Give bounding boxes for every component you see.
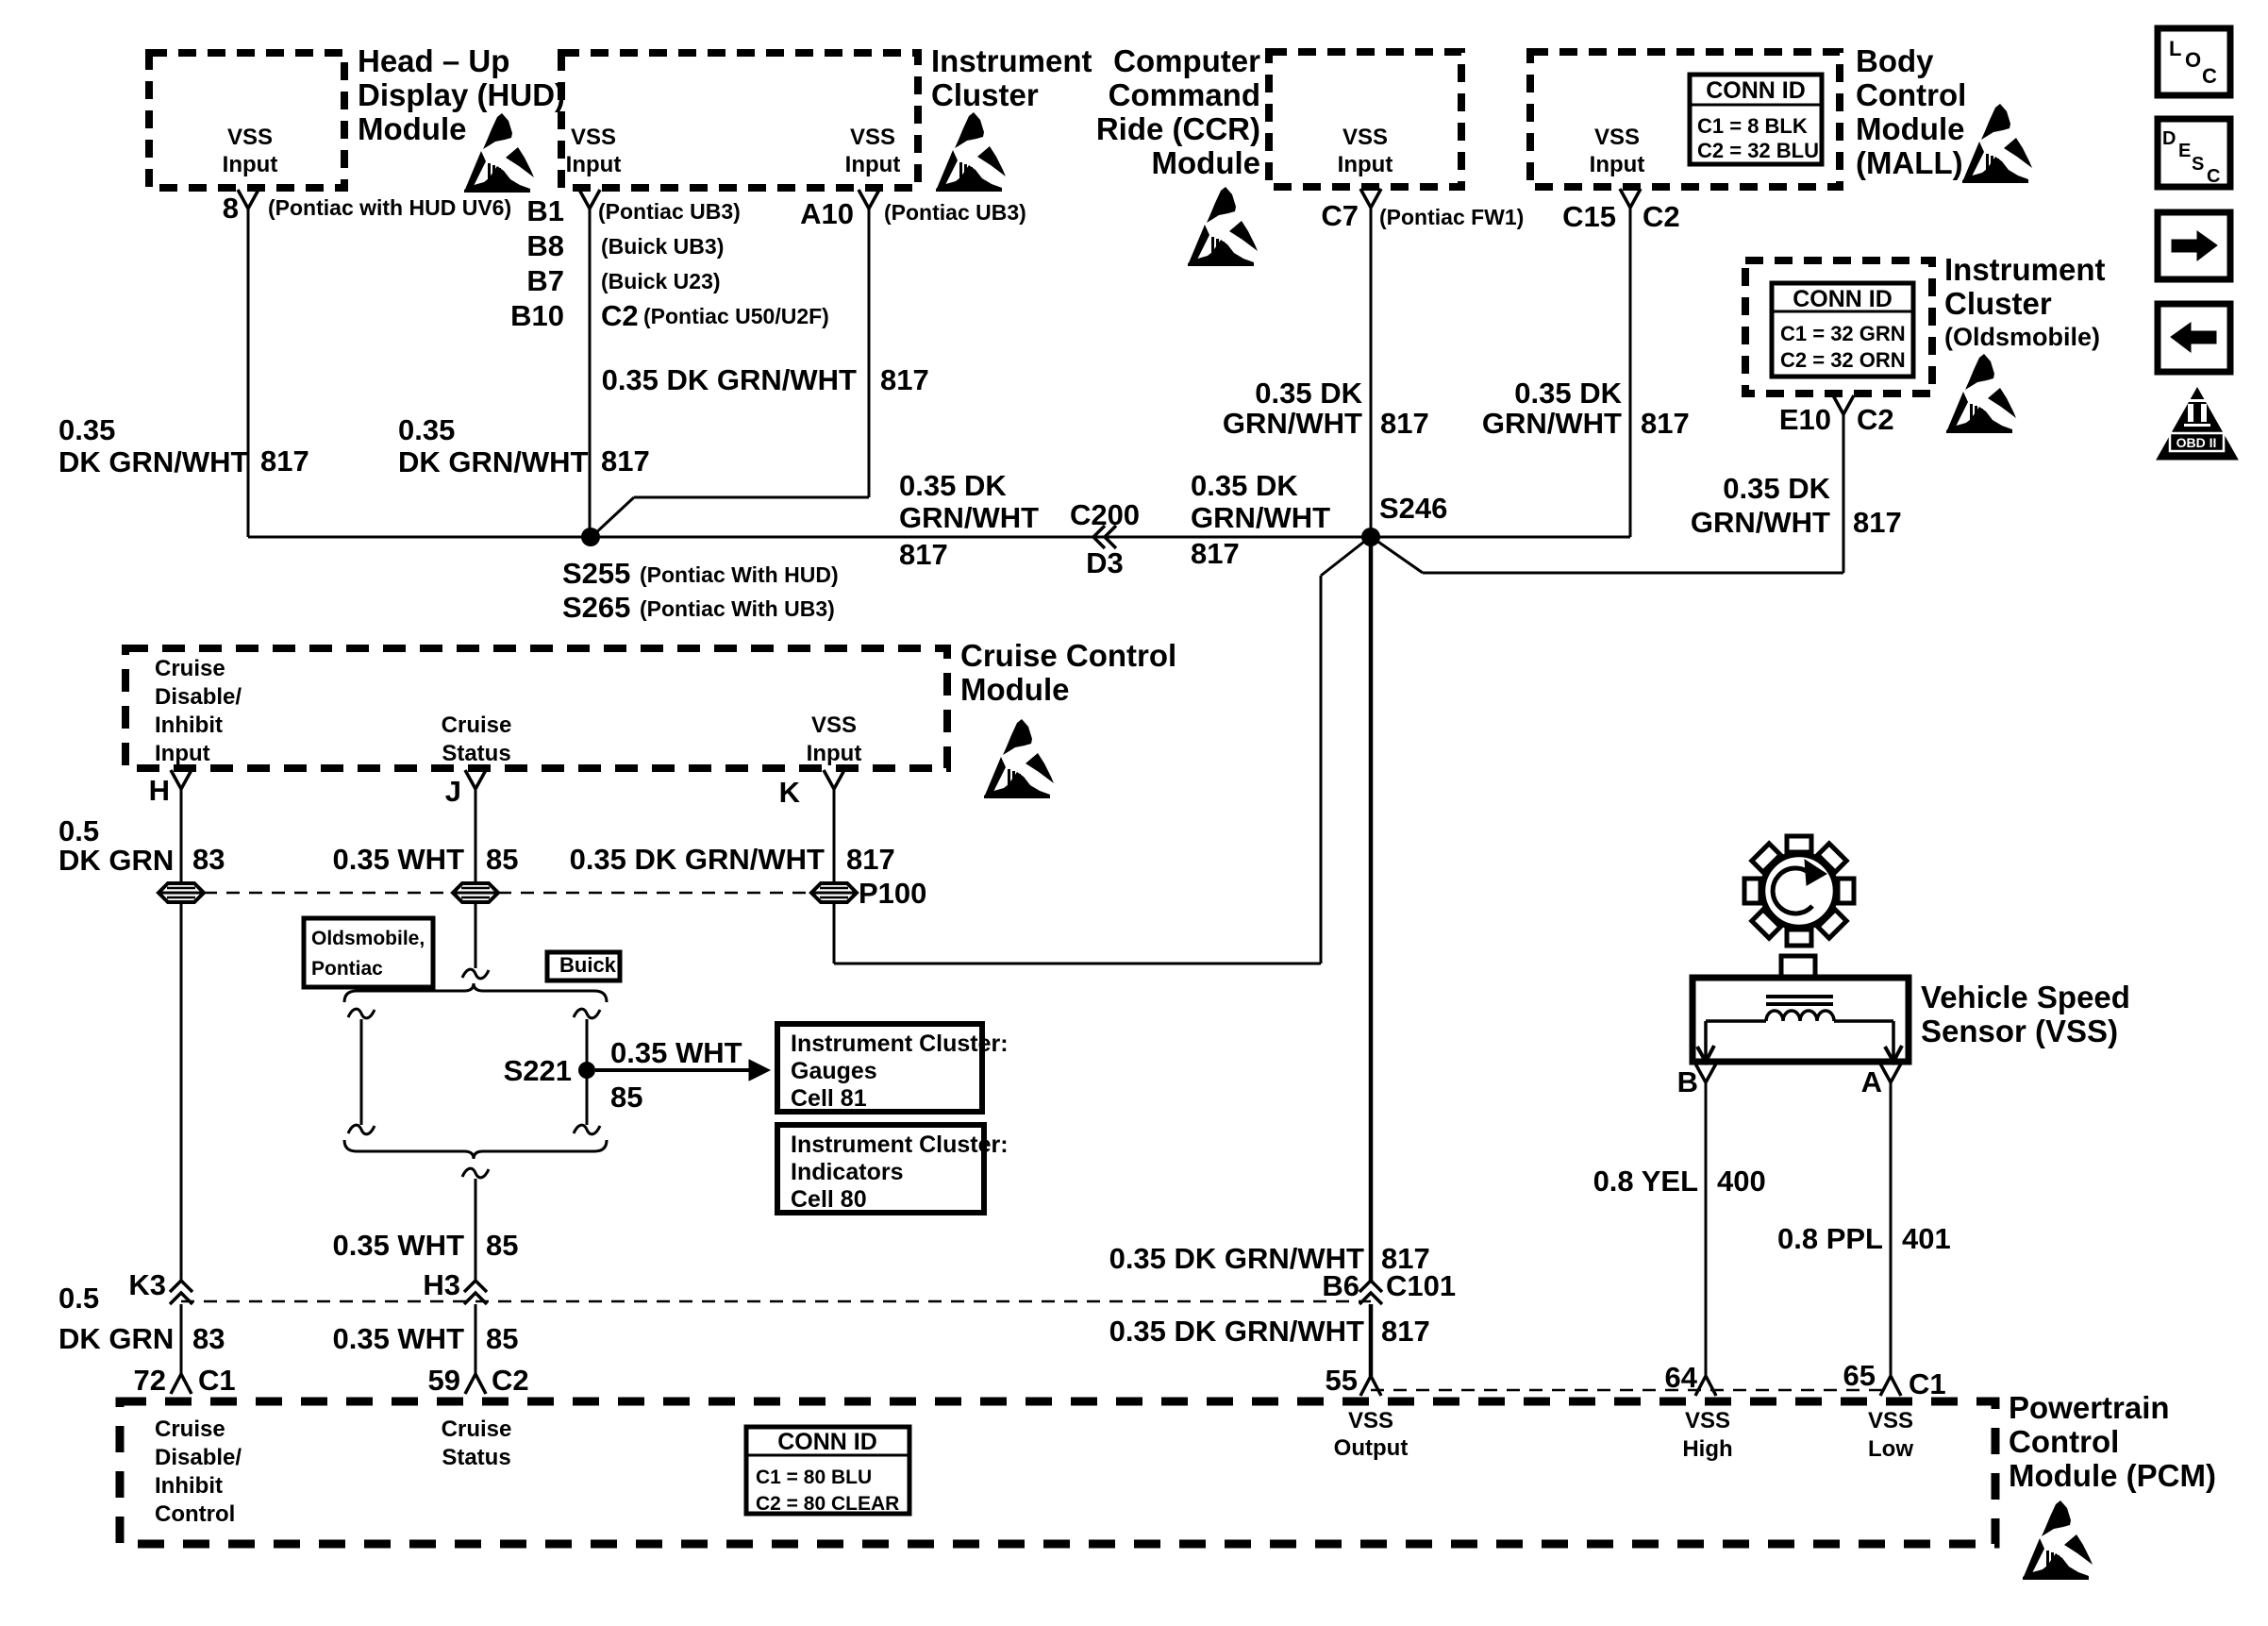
svg-text:C7: C7 (1321, 199, 1359, 232)
inline connector on wire H (158, 883, 204, 902)
splice S246 (1361, 528, 1380, 546)
svg-text:P100: P100 (859, 877, 926, 910)
pin C15 C2 of BCM (1620, 189, 1641, 208)
svg-text:85: 85 (610, 1081, 642, 1114)
ESD icon cruise control (984, 719, 1054, 798)
svg-text:65: 65 (1843, 1359, 1876, 1392)
top option brace (344, 983, 607, 1002)
svg-text:0.35 DK: 0.35 DK (1723, 472, 1830, 505)
svg-text:Vehicle Speed: Vehicle Speed (1921, 980, 2130, 1014)
module Computer Command Ride (CCR) dashed box (1269, 52, 1461, 187)
svg-text:0.35 WHT: 0.35 WHT (332, 1229, 464, 1262)
svg-text:B8: B8 (526, 229, 564, 262)
PCM pin 72 fork (171, 1374, 192, 1394)
svg-text:C2: C2 (1643, 200, 1680, 233)
svg-text:0.35 DK GRN/WHT: 0.35 DK GRN/WHT (570, 843, 825, 876)
svg-text:(Pontiac UB3): (Pontiac UB3) (884, 200, 1026, 225)
svg-text:Low: Low (1868, 1436, 1913, 1462)
svg-text:85: 85 (486, 1229, 518, 1262)
svg-text:Input: Input (155, 741, 210, 766)
svg-text:C1 = 8 BLK: C1 = 8 BLK (1697, 114, 1808, 138)
svg-text:59: 59 (428, 1364, 460, 1397)
svg-text:0.35 WHT: 0.35 WHT (332, 1322, 464, 1355)
svg-text:Display (HUD): Display (HUD) (358, 77, 565, 112)
svg-text:GRN/WHT: GRN/WHT (1223, 407, 1362, 440)
svg-text:Sensor (VSS): Sensor (VSS) (1921, 1014, 2118, 1048)
svg-text:0.35 DK: 0.35 DK (1514, 377, 1622, 410)
svg-text:Instrument: Instrument (931, 43, 1092, 78)
svg-text:High: High (1682, 1436, 1732, 1462)
BCM CONN ID table (1690, 75, 1822, 164)
Vehicle Speed Sensor box (1693, 978, 1909, 1062)
svg-text:72: 72 (134, 1364, 166, 1397)
PCM CONN ID table (746, 1427, 909, 1514)
svg-text:Instrument: Instrument (1944, 252, 2106, 287)
svg-text:0.35 WHT: 0.35 WHT (610, 1036, 742, 1069)
svg-text:K: K (779, 776, 801, 809)
svg-text:Input: Input (845, 152, 901, 177)
wire break tilde above top brace (462, 969, 489, 979)
wire H3 to PCM pin 59 (475, 1304, 477, 1374)
wire K corner to riser to S246 (834, 963, 1321, 965)
module Instrument Cluster dashed box (561, 53, 918, 188)
PCM pin 65 fork (1880, 1376, 1901, 1396)
svg-text:VSS: VSS (1594, 125, 1640, 150)
svg-text:Ride (CCR): Ride (CCR) (1096, 111, 1260, 146)
wire pin K down to P100 and corner (833, 786, 836, 964)
svg-text:401: 401 (1902, 1222, 1951, 1255)
svg-text:DK GRN: DK GRN (58, 844, 174, 877)
svg-text:817: 817 (260, 444, 309, 478)
svg-text:A: A (1861, 1065, 1882, 1098)
gear reluctor wheel icon (1838, 879, 1854, 903)
icon arrow right box (2158, 212, 2230, 279)
svg-text:J: J (445, 775, 461, 808)
svg-text:0.35: 0.35 (58, 413, 115, 446)
wire from pin C7 down to splice S246 (1370, 206, 1373, 537)
pin B of VSS (1695, 1064, 1716, 1082)
module Cruise Control dashed box (125, 648, 947, 768)
svg-text:H: H (149, 774, 170, 807)
svg-text:B7: B7 (526, 264, 564, 297)
PCM pin 64 fork (1695, 1376, 1716, 1396)
svg-text:Module: Module (1152, 145, 1260, 180)
dashed connector line through H J P100 (181, 892, 834, 895)
svg-text:817: 817 (846, 843, 895, 876)
svg-text:0.35 DK GRN/WHT: 0.35 DK GRN/WHT (602, 363, 857, 396)
svg-text:817: 817 (880, 363, 929, 396)
svg-text:(Oldsmobile): (Oldsmobile) (1944, 323, 2100, 351)
VSS mounting tab (1781, 956, 1815, 979)
ESD icon BCM (1962, 104, 2032, 183)
wire from braces down to connector C101 H3 (475, 1179, 477, 1282)
right option branch wire with break tildes (574, 1009, 600, 1018)
svg-text:(Buick U23): (Buick U23) (601, 269, 721, 293)
module Head-Up Display (HUD) dashed box (149, 53, 344, 188)
svg-text:Instrument Cluster:: Instrument Cluster: (791, 1131, 1009, 1158)
svg-text:(Buick UB3): (Buick UB3) (601, 234, 724, 259)
callout box Instrument Cluster Gauges Cell 81 (777, 1024, 982, 1112)
svg-text:0.5: 0.5 (58, 1282, 99, 1315)
svg-text:Module: Module (1856, 111, 1964, 146)
svg-text:817: 817 (1641, 407, 1690, 440)
svg-text:S: S (2192, 154, 2204, 175)
svg-text:83: 83 (192, 1322, 225, 1355)
svg-text:817: 817 (899, 538, 948, 571)
wire from pin A10 with jog to splice S255 (868, 206, 871, 497)
svg-text:64: 64 (1665, 1361, 1698, 1394)
icon DESC box (2158, 119, 2230, 187)
wire riser to pin C15 (1629, 206, 1632, 537)
rotation arrow inside gear (1773, 868, 1812, 914)
icon OBD II triangle (2157, 388, 2238, 460)
svg-text:(Pontiac With UB3): (Pontiac With UB3) (640, 596, 835, 621)
svg-text:E10: E10 (1779, 403, 1831, 436)
svg-text:0.35 DK: 0.35 DK (1255, 377, 1362, 410)
svg-text:D: D (2162, 128, 2176, 149)
svg-text:GRN/WHT: GRN/WHT (1482, 407, 1622, 440)
pin J of cruise module (465, 770, 486, 789)
VSS internal rail and arrows (1706, 1019, 1766, 1023)
PCM pin 59 fork (465, 1374, 486, 1394)
connector P100 on wire K (811, 883, 857, 902)
splice S255 S265 (581, 528, 600, 546)
svg-text:Cluster: Cluster (1944, 286, 2052, 321)
svg-text:Input: Input (223, 152, 278, 177)
svg-text:VSS: VSS (850, 125, 895, 150)
svg-text:Inhibit: Inhibit (155, 712, 223, 738)
wire horizontal bus 817 from pin8 corner to S246 (248, 536, 1371, 539)
svg-text:Cluster: Cluster (931, 77, 1039, 112)
svg-text:B1: B1 (526, 194, 564, 227)
svg-text:VSS: VSS (1348, 1408, 1393, 1433)
callout box Buick (547, 952, 620, 981)
svg-text:Buick: Buick (559, 953, 617, 977)
pin H of cruise module (171, 770, 192, 789)
svg-text:Cruise: Cruise (442, 1416, 512, 1442)
svg-text:OBD II: OBD II (2176, 435, 2217, 450)
pin A10 of instrument cluster (859, 190, 879, 209)
svg-text:817: 817 (1853, 506, 1902, 539)
svg-text:C: C (2202, 64, 2217, 88)
svg-text:VSS: VSS (1868, 1408, 1913, 1433)
svg-text:CONN ID: CONN ID (1706, 77, 1806, 104)
svg-text:0.35 WHT: 0.35 WHT (332, 843, 464, 876)
arrow wire S221 to instrument cluster gauges (595, 1068, 749, 1072)
wire pin J down to option braces (475, 786, 477, 968)
module Powertrain Control Module dashed box (120, 1401, 1995, 1544)
pin K of cruise module (824, 770, 844, 789)
svg-text:C1 = 32 GRN: C1 = 32 GRN (1780, 322, 1906, 345)
svg-text:C1: C1 (1909, 1367, 1946, 1400)
svg-text:C2 = 32 BLU: C2 = 32 BLU (1697, 139, 1819, 162)
svg-text:A10: A10 (800, 197, 854, 230)
svg-text:(MALL): (MALL) (1856, 145, 1963, 180)
ESD icon Oldsmobile cluster (1946, 354, 2016, 433)
icon LOC box (2158, 28, 2230, 95)
svg-text:DK GRN: DK GRN (58, 1322, 174, 1355)
ESD icon Instrument Cluster (936, 112, 1006, 192)
pin E10 C2 of Oldsmobile cluster (1833, 395, 1854, 414)
svg-text:Body: Body (1856, 43, 1934, 78)
left option branch wire with break tildes (348, 1009, 375, 1018)
svg-text:L: L (2169, 37, 2181, 60)
svg-text:Command: Command (1109, 77, 1260, 112)
svg-text:C101: C101 (1386, 1269, 1456, 1302)
svg-text:Cruise: Cruise (155, 656, 225, 681)
svg-text:85: 85 (486, 1322, 518, 1355)
svg-text:0.8 YEL: 0.8 YEL (1593, 1165, 1698, 1198)
svg-text:E: E (2178, 141, 2191, 161)
svg-text:C: C (2207, 166, 2220, 187)
bottom option brace (344, 1140, 607, 1159)
wire B6 to PCM pin 55 (1369, 1304, 1374, 1376)
svg-text:C2: C2 (492, 1364, 529, 1397)
pin A of VSS (1880, 1064, 1901, 1082)
svg-text:Oldsmobile,: Oldsmobile, (311, 928, 425, 949)
svg-text:0.8 PPL: 0.8 PPL (1777, 1222, 1883, 1255)
svg-text:Input: Input (566, 152, 622, 177)
wire from pin B1 down to splice S255 (589, 206, 592, 537)
svg-text:C2 = 32 ORN: C2 = 32 ORN (1780, 348, 1906, 372)
svg-text:Module: Module (358, 111, 466, 146)
svg-text:DK GRN/WHT: DK GRN/WHT (398, 445, 589, 478)
svg-text:Powertrain: Powertrain (2009, 1390, 2170, 1425)
module Body Control Module dashed box (1530, 52, 1840, 187)
splice S221 on Buick branch (578, 1062, 595, 1079)
dashed connector line pins 55 64 65 (1371, 1389, 1891, 1392)
VSS coil winding (1766, 1011, 1834, 1021)
svg-text:817: 817 (1191, 537, 1240, 570)
module Instrument Cluster (Oldsmobile) dashed box (1745, 260, 1932, 394)
VSS core lines (1766, 995, 1833, 998)
callout box Oldsmobile Pontiac (304, 918, 433, 987)
svg-text:Disable/: Disable/ (155, 1445, 242, 1470)
svg-text:0.35 DK: 0.35 DK (1191, 469, 1298, 502)
svg-text:C200: C200 (1070, 498, 1140, 531)
svg-text:S221: S221 (504, 1054, 572, 1087)
pin B1 of instrument cluster (579, 190, 600, 209)
svg-text:Output: Output (1334, 1435, 1409, 1461)
pin C7 of CCR module (1360, 189, 1381, 208)
wire bus S246 to C15 riser (1371, 536, 1630, 539)
svg-text:Cruise: Cruise (155, 1416, 225, 1442)
svg-text:Control: Control (1856, 77, 1966, 112)
svg-text:B: B (1677, 1065, 1698, 1098)
svg-text:H3: H3 (423, 1268, 460, 1301)
inline connector on wire J (453, 883, 498, 902)
ESD icon PCM (2023, 1500, 2093, 1580)
svg-text:C2: C2 (1857, 403, 1894, 436)
svg-text:(Pontiac FW1): (Pontiac FW1) (1379, 205, 1524, 229)
svg-text:Gauges: Gauges (791, 1058, 877, 1084)
wire K3 to PCM pin 72 (180, 1304, 183, 1374)
wire break tilde below bottom brace (462, 1168, 489, 1178)
svg-text:0.35 DK: 0.35 DK (899, 469, 1007, 502)
icon arrow left box (2158, 304, 2230, 372)
svg-text:B6: B6 (1322, 1269, 1359, 1302)
dashed connector line C101 (181, 1300, 1371, 1303)
wire from S246 to pin E10 of Oldsmobile cluster (1843, 414, 1845, 573)
connector C200 double chevron on bus (1093, 526, 1105, 548)
svg-text:Cruise Control: Cruise Control (960, 638, 1176, 673)
ESD icon HUD (464, 113, 534, 193)
callout box Instrument Cluster Indicators Cell 80 (777, 1125, 984, 1213)
svg-text:S255: S255 (562, 557, 630, 590)
svg-text:817: 817 (1381, 1315, 1430, 1348)
svg-text:C1 = 80 BLU: C1 = 80 BLU (756, 1467, 872, 1488)
svg-text:Cell 81: Cell 81 (791, 1085, 867, 1112)
svg-text:VSS: VSS (811, 712, 857, 738)
svg-text:400: 400 (1717, 1165, 1766, 1198)
svg-text:85: 85 (486, 843, 518, 876)
connector K3 double chevron (170, 1281, 192, 1292)
svg-text:K3: K3 (128, 1268, 166, 1301)
connector C101 pin B6 double chevron (1359, 1281, 1382, 1292)
PCM pin 55 fork (1360, 1376, 1381, 1396)
svg-text:817: 817 (1380, 407, 1429, 440)
svg-text:CONN ID: CONN ID (1793, 286, 1893, 312)
svg-text:0.5: 0.5 (58, 814, 99, 847)
svg-text:8: 8 (223, 192, 239, 225)
wire VSS high pin B to PCM pin 64 (1705, 1080, 1708, 1376)
svg-text:(Pontiac U50/U2F): (Pontiac U50/U2F) (643, 304, 829, 328)
svg-text:VSS: VSS (571, 125, 616, 150)
svg-text:D3: D3 (1086, 546, 1124, 579)
pin 8 of HUD module (238, 190, 258, 209)
svg-text:Module: Module (960, 672, 1069, 707)
svg-text:0.35: 0.35 (398, 413, 455, 446)
svg-text:Module (PCM): Module (PCM) (2009, 1458, 2216, 1493)
svg-text:S246: S246 (1379, 492, 1447, 525)
svg-text:VSS: VSS (227, 125, 273, 150)
svg-text:Status: Status (442, 741, 510, 766)
svg-text:817: 817 (601, 444, 650, 478)
svg-text:O: O (2185, 48, 2201, 72)
svg-text:Pontiac: Pontiac (311, 958, 383, 980)
svg-text:Control: Control (2009, 1424, 2119, 1459)
svg-text:C2: C2 (601, 299, 639, 332)
svg-text:(Pontiac With HUD): (Pontiac With HUD) (640, 562, 839, 587)
svg-text:VSS: VSS (1685, 1408, 1730, 1433)
svg-text:83: 83 (192, 843, 225, 876)
svg-text:B10: B10 (510, 299, 564, 332)
svg-text:Instrument Cluster:: Instrument Cluster: (791, 1031, 1009, 1057)
svg-text:S265: S265 (562, 591, 630, 624)
connector H3 double chevron (464, 1281, 487, 1292)
svg-text:Control: Control (155, 1501, 235, 1527)
svg-text:Cell 80: Cell 80 (791, 1186, 867, 1213)
svg-text:C2 = 80 CLEAR: C2 = 80 CLEAR (756, 1493, 899, 1515)
svg-text:DK GRN/WHT: DK GRN/WHT (58, 445, 249, 478)
svg-text:55: 55 (1326, 1364, 1358, 1397)
svg-text:0.35 DK GRN/WHT: 0.35 DK GRN/WHT (1109, 1315, 1364, 1348)
svg-text:Head – Up: Head – Up (358, 43, 509, 78)
svg-text:Inhibit: Inhibit (155, 1473, 223, 1499)
svg-text:Input: Input (1338, 152, 1393, 177)
svg-text:(Pontiac with HUD UV6): (Pontiac with HUD UV6) (268, 195, 511, 220)
svg-text:GRN/WHT: GRN/WHT (899, 501, 1039, 534)
Oldsmobile cluster CONN ID table (1772, 283, 1913, 377)
svg-text:Disable/: Disable/ (155, 684, 242, 710)
svg-text:Input: Input (807, 741, 862, 766)
svg-text:Cruise: Cruise (442, 712, 512, 738)
wire from pin 8 down to splice bus (247, 206, 250, 537)
svg-text:C1: C1 (198, 1364, 236, 1397)
wire VSS output from S246 down to C101 B6 (1369, 537, 1374, 1282)
svg-text:Computer: Computer (1113, 43, 1260, 78)
svg-text:(Pontiac UB3): (Pontiac UB3) (598, 199, 741, 224)
svg-text:GRN/WHT: GRN/WHT (1691, 506, 1830, 539)
svg-text:VSS: VSS (1342, 125, 1388, 150)
svg-text:Status: Status (442, 1445, 510, 1470)
svg-text:Input: Input (1590, 152, 1645, 177)
svg-text:CONN ID: CONN ID (777, 1429, 877, 1455)
svg-text:Indicators: Indicators (791, 1159, 903, 1185)
svg-text:GRN/WHT: GRN/WHT (1191, 501, 1330, 534)
ESD icon CCR (1188, 187, 1258, 266)
svg-text:C15: C15 (1562, 200, 1616, 233)
wire pin H down to connector C101 K3 (180, 786, 183, 1282)
wire VSS low pin A to PCM pin 65 (1890, 1080, 1893, 1376)
